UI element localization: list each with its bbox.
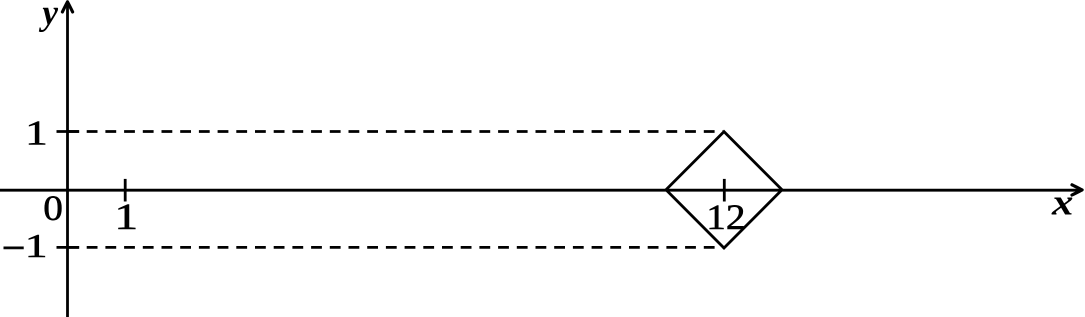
svg-text:1: 1 bbox=[25, 113, 48, 152]
dashed line y=-1 bbox=[68, 246, 723, 249]
svg-text:y: y bbox=[38, 0, 58, 33]
label x bbox=[1051, 181, 1073, 223]
svg-text:x: x bbox=[1051, 181, 1073, 223]
diamond |x-12|+|y|=1 bbox=[666, 132, 782, 248]
label 0 at origin bbox=[43, 190, 63, 229]
label 1 on y-axis bbox=[25, 113, 48, 152]
tick y=-1 bbox=[57, 246, 80, 249]
tick x=12 bbox=[723, 179, 726, 202]
svg-text:1: 1 bbox=[114, 197, 138, 238]
x-axis bbox=[0, 189, 1080, 192]
y-axis arrowhead bbox=[62, 2, 72, 12]
svg-text:1: 1 bbox=[25, 227, 48, 265]
svg-text:0: 0 bbox=[43, 190, 63, 229]
label 1 on x-axis bbox=[114, 197, 138, 238]
tick x=1 bbox=[124, 179, 127, 202]
label 12 on x-axis bbox=[706, 197, 745, 237]
svg-text:12: 12 bbox=[706, 197, 745, 237]
label y bbox=[38, 0, 58, 33]
y-axis bbox=[66, 5, 69, 317]
dashed line y=1 bbox=[68, 130, 723, 133]
tick y=1 bbox=[57, 130, 80, 133]
label 1 of -1 bbox=[25, 227, 48, 265]
x-axis arrowhead bbox=[1072, 185, 1082, 195]
label minus of -1 bbox=[2, 226, 26, 272]
svg-text:−: − bbox=[2, 226, 26, 272]
